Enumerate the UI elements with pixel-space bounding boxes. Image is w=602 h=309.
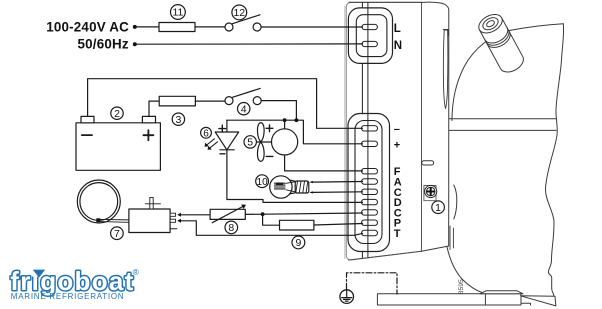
junction dot motor plus <box>283 118 287 122</box>
wire dot down to resistor 9 <box>263 214 280 225</box>
fuse 11 <box>159 23 195 32</box>
svg-text:7: 7 <box>114 228 120 240</box>
terminal L pill <box>362 24 377 29</box>
coil wires <box>100 219 129 222</box>
wire resistor to P <box>314 224 363 226</box>
switch 12 <box>225 23 233 31</box>
svg-text:6: 6 <box>203 128 209 139</box>
top connector inner <box>356 15 387 57</box>
plus bus wire <box>227 120 363 144</box>
bulb filament <box>275 183 286 189</box>
label 8 <box>225 221 238 234</box>
svg-text:T: T <box>394 228 401 240</box>
service valve pipe body <box>479 18 523 72</box>
svg-text:1: 1 <box>435 202 441 214</box>
battery minus wire to minus terminal <box>88 79 363 129</box>
pipe ferrule rings <box>485 28 508 43</box>
junction dot switch feed <box>295 118 299 122</box>
top connector outer <box>348 8 392 64</box>
resistor 9 <box>280 220 314 230</box>
label 10 <box>256 175 269 188</box>
connector center line <box>367 3 369 258</box>
control unit side face <box>422 2 449 251</box>
svg-text:5: 5 <box>247 137 253 149</box>
label 9 <box>292 236 305 249</box>
frigoboat logo <box>10 266 139 301</box>
label 1 <box>432 201 445 214</box>
unit bottom edge accent <box>349 251 422 260</box>
svg-text:100-240V AC: 100-240V AC <box>46 20 129 35</box>
control box <box>129 209 170 233</box>
motor minus wire to F <box>285 155 363 171</box>
bulb wire terminals <box>309 181 313 183</box>
screw bracket <box>424 185 436 200</box>
ground symbol <box>340 290 354 304</box>
screw 1 <box>425 185 437 197</box>
coil 7 <box>77 180 120 223</box>
dash-dot ground link <box>347 273 398 294</box>
side tab <box>422 161 434 165</box>
node dot N <box>133 42 137 46</box>
svg-text:®: ® <box>133 268 139 277</box>
unit right edge accent <box>421 3 423 252</box>
svg-text:11: 11 <box>172 7 183 19</box>
fuse 3 <box>159 96 195 106</box>
unit top edge accent <box>349 1 422 3</box>
label 5 <box>244 136 256 148</box>
terminal pills minus plus F A C D C P T <box>362 126 378 236</box>
svg-text:50/60Hz: 50/60Hz <box>78 36 129 51</box>
LED plus minus <box>219 125 226 154</box>
label 2 <box>111 107 123 119</box>
box antenna <box>150 197 153 209</box>
side face clip bracket <box>443 30 447 109</box>
battery plus wire to fuse 3 <box>149 101 159 116</box>
unit left edge inner line <box>344 6 346 259</box>
motor plus minus labels <box>266 125 273 156</box>
compressor torn right edge <box>545 24 563 297</box>
pot 8 <box>210 209 245 219</box>
junction dot pot <box>261 212 265 216</box>
compressor dome arc <box>452 24 563 121</box>
label 7 <box>111 227 124 240</box>
svg-text:4: 4 <box>241 103 247 115</box>
svg-text:N: N <box>394 40 402 52</box>
box terminals <box>170 213 176 216</box>
lower connector inner <box>355 121 382 244</box>
wire fuse to switch 12 <box>195 26 225 28</box>
wire pot to C terminal <box>245 213 362 214</box>
compressor seam line upper <box>423 118 557 120</box>
switch 4 <box>225 97 233 105</box>
compressor shell bulge edge <box>454 185 457 219</box>
svg-text:10: 10 <box>257 177 269 188</box>
compressor body group <box>377 11 563 306</box>
base plate tick <box>484 294 486 305</box>
compressor skirt <box>447 247 505 294</box>
compressor foot <box>480 291 523 294</box>
terminal N pill <box>362 41 377 46</box>
svg-text:–: – <box>394 123 400 135</box>
svg-text:L: L <box>394 23 401 35</box>
svg-text:MARINE REFRIGERATION: MARINE REFRIGERATION <box>11 292 125 301</box>
compressor seam line lower <box>423 129 557 131</box>
svg-text:9: 9 <box>295 237 301 249</box>
wire to pot 8 <box>181 214 210 216</box>
bulb 10 <box>270 176 292 198</box>
wire box to T terminal <box>181 221 363 236</box>
motor circle 5 <box>272 129 298 155</box>
base plate <box>377 294 521 305</box>
label 11 <box>171 5 186 20</box>
terminal arrows <box>177 213 181 217</box>
svg-text:8595: 8595 <box>458 279 465 294</box>
base plate torn wedge <box>521 296 556 306</box>
fan blades 5 <box>257 123 264 142</box>
battery 2 <box>76 123 160 171</box>
wire fuse 3 to switch 4 <box>195 100 225 102</box>
wire switch 4 down to plus bus <box>261 101 296 121</box>
svg-text:3: 3 <box>175 114 181 126</box>
LED arrows <box>206 139 218 149</box>
connector left line segments <box>361 3 363 259</box>
side face bottom step <box>450 226 453 250</box>
LED 6 <box>226 120 228 132</box>
pipe top face <box>476 11 506 37</box>
node dot L <box>133 25 137 29</box>
terminal labels <box>394 23 402 240</box>
label 4 <box>238 103 250 115</box>
svg-text:12: 12 <box>233 7 245 19</box>
wire switch 12 to L terminal <box>261 26 362 28</box>
wire N line <box>137 43 363 45</box>
label 12 <box>232 5 247 20</box>
AC source text <box>46 20 129 52</box>
svg-text:2: 2 <box>114 108 120 120</box>
wire L to fuse 11 <box>137 26 159 28</box>
bulb wires to A and C <box>313 182 363 193</box>
svg-text:+: + <box>394 139 400 151</box>
label 6 <box>201 127 212 138</box>
control unit front face <box>346 3 421 260</box>
svg-text:8: 8 <box>228 222 234 234</box>
lower connector outer <box>348 114 390 252</box>
label 3 <box>172 113 184 125</box>
